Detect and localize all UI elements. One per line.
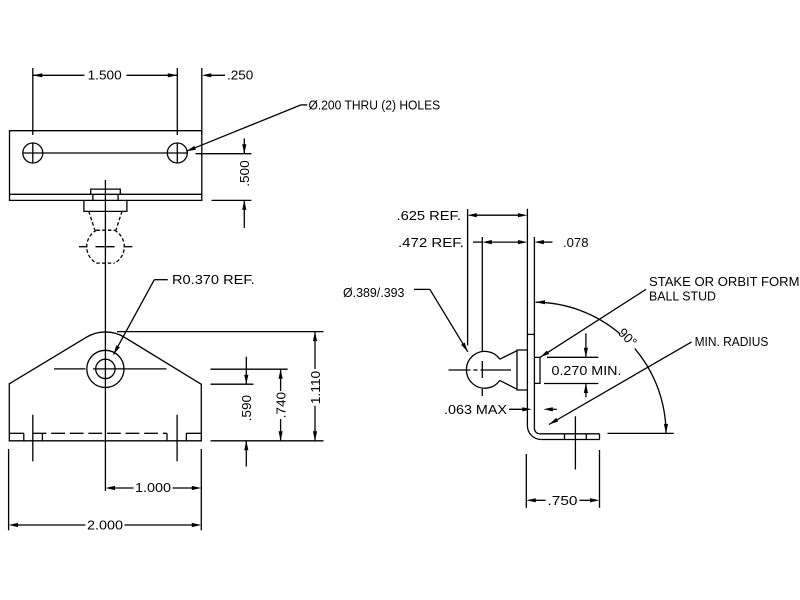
dim 1.500 extension lines xyxy=(32,68,34,135)
leader R0.370 xyxy=(114,345,120,354)
plate top edge xyxy=(527,333,534,335)
svg-text:.063 MAX: .063 MAX xyxy=(444,402,507,417)
leg top face ext line xyxy=(608,432,674,434)
leg end cap xyxy=(599,434,601,440)
front ext lines xyxy=(117,331,324,333)
svg-text:2.000: 2.000 xyxy=(87,518,123,533)
leg hole edges xyxy=(564,434,566,440)
dim .500 extension lines xyxy=(196,153,252,155)
svg-text:.750: .750 xyxy=(548,493,578,508)
dim 2.000 ext xyxy=(8,449,10,530)
dim 0.270 ext lines xyxy=(547,356,598,358)
svg-text:STAKE OR ORBIT FORM: STAKE OR ORBIT FORM xyxy=(649,274,800,289)
stud neck taper xyxy=(500,351,517,360)
dim .472 line xyxy=(473,241,482,243)
stud taper hidden xyxy=(89,211,95,230)
plate right face xyxy=(533,334,535,428)
hole H1 left xyxy=(23,143,43,163)
dim .740 xyxy=(280,369,282,391)
hole H2 right xyxy=(167,143,187,163)
dim 1.110 xyxy=(314,332,316,369)
svg-text:.625 REF.: .625 REF. xyxy=(397,208,462,223)
left tab notch xyxy=(23,433,25,441)
svg-text:90°: 90° xyxy=(615,325,640,350)
dim .063 arrows xyxy=(509,408,525,410)
hidden bend line xyxy=(9,432,23,434)
tab centerlines xyxy=(32,415,34,462)
dim .590 xyxy=(245,357,247,384)
line through holes xyxy=(23,152,188,154)
svg-text:1.110: 1.110 xyxy=(308,371,323,405)
dim 2.000 line xyxy=(9,523,19,527)
leg bottom face xyxy=(541,439,599,441)
stake end xyxy=(534,357,540,383)
leg top face xyxy=(540,433,600,435)
svg-text:1.000: 1.000 xyxy=(135,480,171,495)
svg-text:BALL STUD: BALL STUD xyxy=(649,289,716,304)
top view plate bottom bend line xyxy=(10,193,202,195)
plate left face xyxy=(526,334,528,425)
dim .750 ext lines xyxy=(525,454,527,508)
svg-text:.078: .078 xyxy=(563,235,589,250)
svg-text:.740: .740 xyxy=(273,392,288,419)
svg-text:Ø.389/.393: Ø.389/.393 xyxy=(343,285,404,300)
dim .625 line xyxy=(467,213,477,217)
svg-text:.250: .250 xyxy=(227,68,253,83)
leader stake xyxy=(540,351,549,358)
svg-text:.500: .500 xyxy=(237,160,252,187)
boss outer circle xyxy=(87,350,124,387)
svg-text:.590: .590 xyxy=(239,395,254,422)
right tab notch xyxy=(166,433,168,441)
leader O.200 holes xyxy=(186,146,196,151)
hole H2 center tick xyxy=(176,143,178,163)
svg-text:MIN. RADIUS: MIN. RADIUS xyxy=(695,334,769,349)
dim .250 line xyxy=(202,73,212,77)
ball vertical centerline xyxy=(481,334,483,351)
dim 1.000 line xyxy=(105,486,115,490)
side view vertical ext lines xyxy=(467,209,469,345)
stud head top view xyxy=(91,189,121,194)
top view plate outline xyxy=(10,131,202,201)
leader O.389 xyxy=(414,288,430,290)
main vertical centerline xyxy=(104,180,106,491)
stud horizontal centerline xyxy=(449,369,471,371)
leg hole centerline xyxy=(574,416,576,469)
svg-text:0.270 MIN.: 0.270 MIN. xyxy=(552,363,622,378)
dim .500 line xyxy=(243,138,245,153)
stud mid sides xyxy=(92,194,94,200)
hole H1 center tick xyxy=(32,143,34,163)
ball hidden outline xyxy=(87,230,97,263)
dim 1.500 line xyxy=(33,74,85,76)
hole horizontal centerline xyxy=(54,368,86,370)
dim 0.270 line xyxy=(585,333,587,357)
svg-text:R0.370 REF.: R0.370 REF. xyxy=(172,272,255,287)
front view bracket outline xyxy=(9,332,201,441)
bend inner radius xyxy=(534,428,539,433)
stud flange front xyxy=(84,200,127,211)
ball horizontal centerline xyxy=(79,246,87,248)
dim .250 extension line xyxy=(201,68,203,135)
dim .078 line xyxy=(534,240,544,244)
svg-text:Ø.200 THRU (2) HOLES: Ø.200 THRU (2) HOLES xyxy=(309,97,441,112)
svg-text:.472 REF.: .472 REF. xyxy=(398,235,464,250)
ball side outline xyxy=(466,351,500,388)
svg-text:1.500: 1.500 xyxy=(88,68,122,83)
leader min radius xyxy=(549,418,558,425)
dim 1.000 ext xyxy=(200,449,202,530)
angle 90 arc xyxy=(536,302,621,334)
stud flange side xyxy=(517,350,527,390)
hole inner circle xyxy=(96,359,115,378)
bend outer radius xyxy=(527,426,541,440)
dim .750 line xyxy=(526,498,536,502)
